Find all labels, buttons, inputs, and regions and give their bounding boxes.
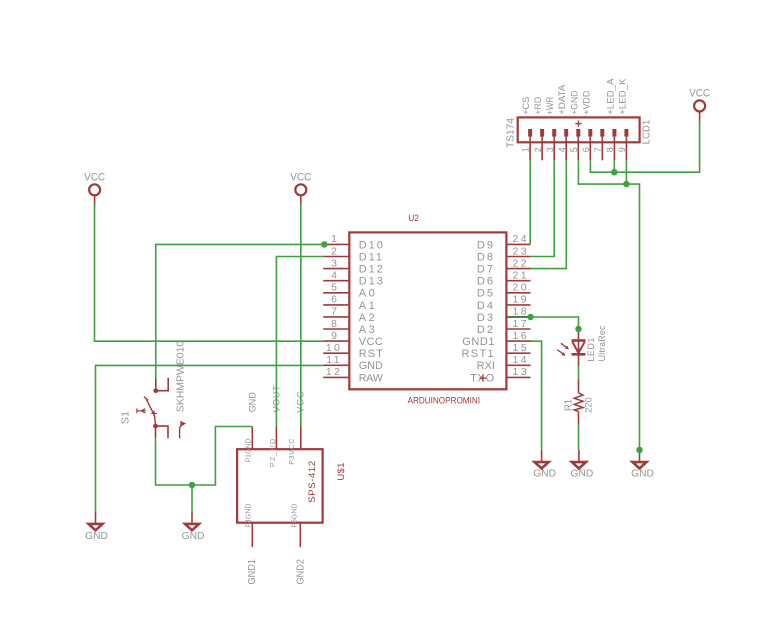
switch S1 push arrow (right) [180, 421, 186, 438]
svg-text:+RD: +RD [533, 97, 544, 115]
module U$1 SPS-412 body [237, 449, 323, 523]
LED1 refdes label [586, 337, 596, 362]
U2 value ARDUINOPROMINI [408, 395, 480, 405]
svg-text:+VDD: +VDD [581, 90, 592, 114]
svg-text:2: 2 [331, 245, 337, 257]
LCD1 pin 4 (DATA) [557, 84, 568, 160]
S1 value SKHMPWE010 [174, 341, 186, 413]
svg-text:LCD1: LCD1 [641, 120, 653, 145]
wire U2 pin11 (GND) to ground bottom left [96, 365, 324, 511]
switch S1 lever [144, 397, 156, 424]
ground symbol (R1 net) [571, 450, 594, 480]
svg-text:1: 1 [331, 233, 337, 245]
svg-text:GND2: GND2 [295, 559, 307, 585]
U$1 pin P4GND (pad GND1) bottom stub + labels [246, 504, 259, 585]
wire U2 pin18 (D3) to LED1 [506, 317, 578, 329]
svg-text:14: 14 [513, 354, 529, 366]
U2 pin 13 (TXO) right stub + number + name [470, 366, 530, 384]
svg-text:D3: D3 [477, 312, 495, 324]
svg-text:+LED_K: +LED_K [617, 78, 628, 115]
svg-text:GND: GND [571, 468, 594, 480]
op-amp U2 ARDUINOPROMINI body [349, 232, 506, 389]
svg-text:+LED_A: +LED_A [605, 78, 616, 115]
svg-text:R1: R1 [563, 399, 575, 411]
U2 pin 12 (RAW) left stub + number + name [323, 366, 383, 384]
svg-text:7: 7 [593, 147, 603, 152]
svg-text:SKHMPWE010: SKHMPWE010 [174, 341, 186, 413]
U2 pin 20 (D5) right stub + number + name [477, 282, 531, 300]
U2 pin 15 (RST1) right stub + number + name [461, 342, 530, 360]
svg-text:16: 16 [513, 330, 529, 342]
switch S1 top contact + bracket [153, 378, 168, 393]
LED1 incoming-light arrows [557, 343, 569, 355]
ground symbol (bottom left, VCC/GND net of U2 pin 11) [85, 512, 108, 542]
U$1 pin P1GND (pad GND) top stub + labels [246, 392, 258, 463]
U2 refdes label [408, 213, 418, 223]
svg-text:D5: D5 [477, 288, 495, 300]
svg-text:A1: A1 [359, 300, 378, 312]
VCC symbol (top right) [689, 88, 710, 123]
svg-text:15: 15 [513, 342, 529, 354]
svg-text:ARDUINOPROMINI: ARDUINOPROMINI [408, 395, 480, 405]
resistor R1 220 [574, 379, 583, 425]
svg-text:+GND: +GND [569, 90, 580, 114]
svg-text:8: 8 [331, 318, 337, 330]
svg-text:A0: A0 [359, 288, 378, 300]
wire LCD1 pin4 to U2 pin22 (D7) [531, 161, 567, 269]
svg-text:12: 12 [326, 366, 342, 378]
svg-text:D7: D7 [477, 264, 495, 276]
svg-text:6: 6 [581, 147, 591, 152]
U2 pin 22 (D7) right stub + number + name [477, 257, 531, 275]
VCC symbol (left) [84, 172, 105, 207]
svg-text:GND: GND [85, 530, 108, 542]
svg-text:9: 9 [617, 147, 627, 152]
U$1 pin P3VCC (pad VCC) top stub + labels [289, 390, 306, 464]
svg-text:UltraRec: UltraRec [597, 325, 607, 361]
LCD1 pin 2 (RD) [533, 97, 544, 161]
svg-text:D2: D2 [477, 324, 495, 336]
LCD1 pin 6 (VDD) [581, 90, 592, 160]
U2 pin 16 (GND1) right stub + number + name [462, 330, 530, 348]
svg-text:+WR: +WR [545, 97, 556, 115]
U2 pin 11 (GND) left stub + number + name [323, 354, 383, 372]
U$1 pin P5GND (pad GND2) bottom stub + labels [292, 504, 307, 585]
junction switch GND net [189, 482, 196, 489]
junction LED1 anode [575, 326, 582, 333]
U2 pin 18 (D3) right stub + number + name [477, 306, 531, 324]
LCD1 pin 9 (LED_K) [617, 78, 628, 160]
svg-text:P2_I/O: P2_I/O [270, 438, 277, 467]
svg-text:U2: U2 [408, 213, 418, 223]
U2 pin 1 (D10) left stub + number + name [323, 233, 385, 251]
svg-text:RST1: RST1 [461, 348, 495, 360]
wire LCD1 pin3 to U2 pin23 (D8) [531, 161, 555, 257]
switch S1 bottom contact + bracket [153, 424, 168, 439]
svg-text:A3: A3 [359, 324, 378, 336]
svg-text:+CS: +CS [521, 97, 532, 115]
svg-text:S1: S1 [119, 411, 131, 424]
LCD1 pin 7 [593, 129, 603, 160]
junction GND net above right ground [636, 447, 643, 454]
ground symbol (LCD GND/LED_K net) [631, 450, 654, 480]
svg-text:D6: D6 [477, 276, 495, 288]
svg-text:1: 1 [521, 147, 531, 152]
svg-text:220: 220 [584, 397, 595, 413]
wire LCD1 pin8 (LED_A) to VCC line [613, 161, 615, 173]
svg-text:GND: GND [631, 468, 654, 480]
svg-text:7: 7 [331, 306, 337, 318]
svg-text:RXI: RXI [477, 360, 495, 372]
wire R1 to ground [578, 425, 580, 450]
U2 pin 5 (A0) left stub + number + name [323, 282, 377, 300]
U2 pin 6 (A1) left stub + number + name [323, 294, 377, 312]
svg-text:2: 2 [533, 147, 543, 152]
U$1 refdes label [336, 462, 347, 480]
wire junction to ground (switch net) [191, 485, 193, 512]
svg-text:10: 10 [326, 342, 342, 354]
svg-text:24: 24 [513, 233, 529, 245]
svg-text:GND1: GND1 [462, 336, 495, 348]
wire LED1 cathode to R1 [578, 366, 580, 379]
svg-text:A2: A2 [359, 312, 378, 324]
svg-text:4: 4 [331, 270, 337, 282]
svg-text:P4GND: P4GND [246, 504, 253, 528]
junction U2 pin1 / D10 net [321, 241, 328, 248]
svg-text:D11: D11 [359, 251, 384, 263]
svg-text:SPS-412: SPS-412 [307, 460, 318, 503]
U$1 value SPS-412 [307, 460, 318, 503]
U2 pin 14 (RXI) right stub + number + name [477, 354, 531, 372]
connector LCD1 (TS174) body [518, 117, 640, 142]
U2 pin 19 (D4) right stub + number + name [477, 294, 531, 312]
ground symbol (switch net) [182, 512, 205, 542]
svg-text:RAW: RAW [359, 372, 384, 384]
VCC symbol (middle) [290, 172, 311, 207]
LCD1 part label TS174 [505, 118, 517, 148]
svg-text:4: 4 [557, 147, 567, 152]
svg-text:22: 22 [513, 257, 529, 269]
U2 pin 9 (VCC) left stub + number + name [323, 330, 383, 348]
wire U2 pin2 (D11) to U$1 VOUT [276, 257, 323, 427]
svg-text:+DATA: +DATA [557, 84, 568, 115]
wire U2 pin1 (D10) to switch S1 [156, 244, 325, 379]
wire LCD1 pin5 (GND) down-right to ground [578, 161, 639, 450]
LCD1 origin cross [575, 120, 581, 126]
junction U2 pin18 / D3 net [527, 314, 534, 321]
U2 pin 8 (A3) left stub + number + name [323, 318, 377, 336]
wire U2 pin16 (GND1) to ground [531, 341, 542, 450]
LCD1 pin 8 (LED_A) [605, 78, 616, 160]
U2 pin 21 (D6) right stub + number + name [477, 270, 531, 288]
U$1 pin P2_I/O (pad VOUT) top stub + labels [270, 385, 281, 467]
svg-text:GND: GND [247, 392, 257, 413]
LED LED1 (UltraRec) symbol [572, 329, 586, 366]
R1 value 220 [584, 397, 595, 413]
svg-text:13: 13 [513, 366, 529, 378]
svg-text:8: 8 [605, 147, 615, 152]
wire LCD1 pin9 (LED_K) to GND line [625, 161, 627, 185]
svg-text:U$1: U$1 [336, 462, 347, 480]
svg-text:GND1: GND1 [246, 559, 258, 585]
svg-text:20: 20 [513, 282, 529, 294]
LED1 value UltraRec [597, 325, 607, 361]
R1 refdes label [563, 399, 575, 411]
wire U2 pin9 (VCC) to VCC left [95, 203, 324, 341]
switch S1 actuator arrow (left) [137, 408, 146, 413]
svg-text:3: 3 [545, 147, 555, 152]
ground symbol (U2 GND1 net) [533, 450, 556, 480]
svg-text:D10: D10 [359, 239, 385, 251]
wire LCD1 pin6 (VDD) to VCC top right [590, 120, 699, 173]
svg-text:P3VCC: P3VCC [289, 438, 296, 465]
svg-text:18: 18 [513, 306, 529, 318]
LCD1 pin 1 (CS) [521, 97, 532, 161]
junction LED_K / GND net [623, 181, 630, 188]
svg-text:D4: D4 [477, 300, 495, 312]
svg-text:D8: D8 [477, 251, 495, 263]
wire VCC middle to U$1 P3VCC [300, 203, 302, 427]
svg-text:TS174: TS174 [505, 118, 517, 148]
svg-text:19: 19 [513, 294, 529, 306]
U2 pin 3 (D12) left stub + number + name [323, 257, 385, 275]
svg-text:RST: RST [359, 348, 384, 360]
svg-text:GND: GND [533, 468, 556, 480]
U2 pin 7 (A2) left stub + number + name [323, 306, 377, 324]
U2 pin 23 (D8) right stub + number + name [477, 245, 531, 263]
svg-text:VCC: VCC [689, 88, 710, 100]
svg-text:9: 9 [331, 330, 337, 342]
svg-text:23: 23 [513, 245, 529, 257]
svg-text:VCC: VCC [359, 336, 384, 348]
wire LCD1 pin1 to U2 pin24 (D9) [529, 161, 531, 245]
U2 pin 24 (D9) right stub + number + name [477, 233, 531, 251]
svg-text:VCC: VCC [290, 172, 311, 184]
LCD1 pin 5 (GND) [569, 90, 580, 160]
svg-text:LED1: LED1 [586, 337, 596, 362]
svg-text:11: 11 [326, 354, 342, 366]
svg-text:GND: GND [182, 530, 205, 542]
svg-text:P5GND: P5GND [292, 504, 299, 528]
S1 refdes label [119, 411, 131, 424]
LCD1 refdes label [641, 120, 653, 145]
svg-text:17: 17 [513, 318, 529, 330]
U2 pin 10 (RST) left stub + number + name [323, 342, 384, 360]
junction LED_A / VCC net [611, 169, 618, 176]
svg-text:VCC: VCC [84, 172, 105, 184]
svg-text:P1GND: P1GND [246, 438, 253, 462]
svg-text:5: 5 [569, 147, 579, 152]
svg-text:D9: D9 [477, 239, 495, 251]
U2 pin 17 (D2) right stub + number + name [477, 318, 531, 336]
LCD1 pin 3 (WR) [545, 97, 556, 161]
switch S1 origin cross [151, 411, 157, 417]
U2 origin cross [480, 375, 487, 382]
svg-text:D12: D12 [359, 264, 385, 276]
U2 pin 2 (D11) left stub + number + name [323, 245, 384, 263]
U2 pin 4 (D13) left stub + number + name [323, 270, 385, 288]
svg-text:6: 6 [331, 294, 337, 306]
svg-text:3: 3 [331, 257, 337, 269]
svg-text:D13: D13 [359, 276, 385, 288]
svg-text:5: 5 [331, 282, 337, 294]
wire switch S1 to ground and U$1 P1GND [156, 427, 253, 486]
svg-text:21: 21 [513, 270, 529, 282]
svg-text:GND: GND [359, 360, 383, 372]
